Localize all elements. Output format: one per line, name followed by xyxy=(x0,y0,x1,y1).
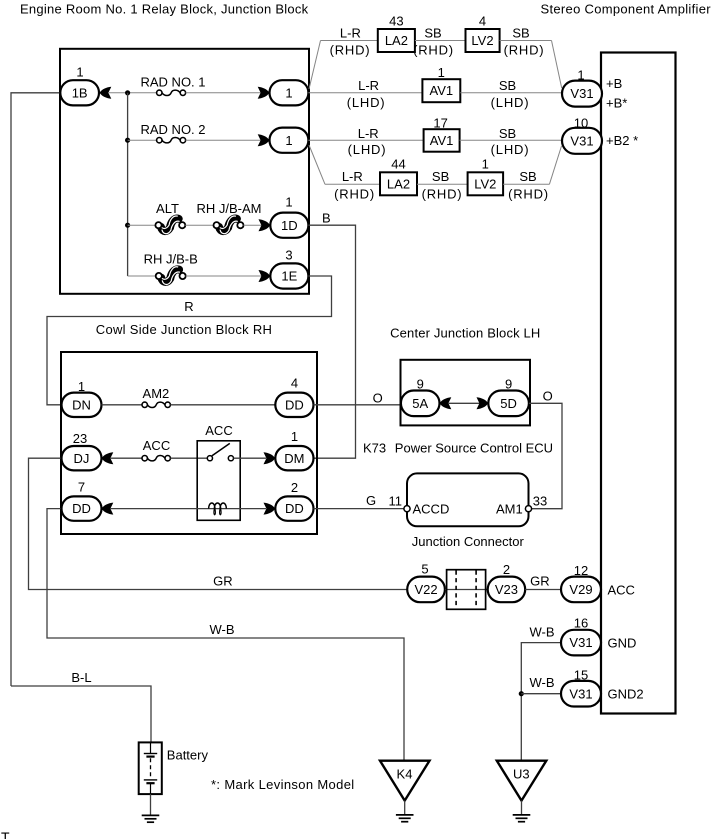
svg-text:GR: GR xyxy=(213,574,233,589)
svg-text:ALT: ALT xyxy=(156,201,179,216)
wire DD7 to relay coil xyxy=(110,508,266,510)
svg-text:1: 1 xyxy=(285,85,292,100)
wire B-L to battery xyxy=(11,686,151,742)
wire B net 1D to DM xyxy=(308,225,355,458)
svg-text:44: 44 xyxy=(391,157,405,172)
connector V31 (GND2) xyxy=(561,681,601,707)
junction node row3 xyxy=(125,223,130,228)
connector LV2 (1) xyxy=(468,172,504,195)
svg-text:L-R: L-R xyxy=(358,78,379,93)
svg-text:Power Source Control ECU: Power Source Control ECU xyxy=(395,441,553,456)
svg-text:5D: 5D xyxy=(500,396,517,411)
connector LA2 xyxy=(378,29,415,52)
svg-text:4: 4 xyxy=(291,375,298,390)
wire R net 1E to DN xyxy=(47,276,332,405)
wire DD2 to junction connector ACCD (G) xyxy=(314,508,404,510)
svg-text:Junction Connector: Junction Connector xyxy=(412,534,525,549)
pin AM1 xyxy=(525,506,531,512)
svg-text:1: 1 xyxy=(285,195,292,210)
connector 1B xyxy=(60,80,99,105)
fusible link RH J/B-B xyxy=(161,269,179,282)
wire 5D to AM1 (O) xyxy=(529,403,562,508)
connector DJ xyxy=(62,446,102,470)
svg-text:+B*: +B* xyxy=(606,95,627,110)
svg-text:LV2: LV2 xyxy=(471,33,493,48)
svg-text:K73: K73 xyxy=(363,441,386,456)
wire RHD path to LA2 xyxy=(321,40,378,42)
svg-text:K4: K4 xyxy=(397,767,413,782)
fuse RAD NO. 2 xyxy=(157,138,162,143)
Engine Room No.1 Relay Block box xyxy=(60,49,309,294)
svg-text:W-B: W-B xyxy=(529,675,554,690)
svg-text:1: 1 xyxy=(291,429,298,444)
connector V23 xyxy=(488,577,526,603)
fuse AM2 xyxy=(142,402,147,407)
svg-text:1D: 1D xyxy=(281,218,298,233)
Cowl Side Junction Block box xyxy=(61,352,317,534)
arrow into DD2 xyxy=(264,503,276,515)
wire 1B to left margin xyxy=(11,93,60,686)
wire link to connector 1D xyxy=(244,224,263,226)
connector LV2 xyxy=(466,29,500,52)
svg-text:SB: SB xyxy=(499,78,516,93)
wire AV1 to V31 pin 1 xyxy=(460,92,561,94)
svg-text:AV1: AV1 xyxy=(429,83,453,98)
wire connector1 row2 to AV1 17 xyxy=(308,139,423,141)
arrow at 5A xyxy=(440,397,452,409)
svg-text:DM: DM xyxy=(284,451,304,466)
svg-text:SB: SB xyxy=(499,126,516,141)
svg-text:SB: SB xyxy=(519,169,536,184)
svg-text:(LHD): (LHD) xyxy=(348,142,387,157)
svg-text:2: 2 xyxy=(291,480,298,495)
wire relay switch to DM xyxy=(234,457,267,459)
svg-text:SB: SB xyxy=(432,169,449,184)
wire link to connector 1E xyxy=(186,275,262,277)
connector AV1 (row2) xyxy=(424,129,460,152)
wire DD4 to 5A (O) xyxy=(314,404,401,406)
wire diagonal into V31 pin10 xyxy=(549,146,561,184)
wire diagonal into V31 pin1 xyxy=(552,41,562,89)
svg-text:(RHD): (RHD) xyxy=(413,43,454,58)
svg-text:V31: V31 xyxy=(570,86,593,101)
connector 1E xyxy=(270,263,308,288)
svg-text:4: 4 xyxy=(479,14,486,29)
svg-text:5A: 5A xyxy=(412,396,428,411)
svg-text:(RHD): (RHD) xyxy=(504,43,545,58)
connector V31 (+B) xyxy=(562,81,602,107)
svg-text:33: 33 xyxy=(533,493,547,508)
junction node row1 xyxy=(125,90,130,95)
wire GND2 branch xyxy=(521,693,561,695)
fuse RAD NO. 1 xyxy=(157,90,162,95)
svg-text:RAD NO. 1: RAD NO. 1 xyxy=(141,75,206,90)
svg-text:L-R: L-R xyxy=(358,126,379,141)
connector 1 (row1) xyxy=(270,80,309,105)
relay coil xyxy=(209,503,227,515)
svg-text:GND2: GND2 xyxy=(608,687,644,702)
fusible link ALT xyxy=(161,219,179,232)
connector DN xyxy=(62,393,102,417)
wire fuse to connector 1 row2 xyxy=(186,139,261,141)
svg-text:V29: V29 xyxy=(569,582,592,597)
svg-text:1: 1 xyxy=(76,65,83,80)
svg-text:LA2: LA2 xyxy=(387,176,410,191)
connector 5A xyxy=(401,391,440,417)
svg-text:RAD NO. 2: RAD NO. 2 xyxy=(141,122,206,137)
wire V22 to shield joint xyxy=(445,589,488,591)
svg-text:43: 43 xyxy=(389,14,403,29)
connector DD (7) xyxy=(62,496,102,520)
ground below K4 xyxy=(396,814,414,816)
wire LA2 to LV2 xyxy=(415,40,466,42)
svg-text:RH J/B-B: RH J/B-B xyxy=(144,252,198,267)
svg-text:V23: V23 xyxy=(495,582,518,597)
wire LV2 to amplifier diag xyxy=(500,40,552,42)
vertical bus in relay block xyxy=(127,93,129,276)
connector DD (4) xyxy=(275,393,313,417)
wire fuse to connector 1 row1 xyxy=(186,92,261,94)
svg-text:B: B xyxy=(322,211,331,226)
svg-text:16: 16 xyxy=(574,616,588,631)
arrow into 5D xyxy=(477,397,489,409)
svg-text:1: 1 xyxy=(482,157,489,172)
ground below U3 xyxy=(513,814,531,816)
wire diagonal row2 down to RHD path xyxy=(309,145,325,184)
svg-text:(RHD): (RHD) xyxy=(508,186,549,201)
svg-text:ACC: ACC xyxy=(608,583,635,598)
svg-text:AM2: AM2 xyxy=(143,386,170,401)
junction node GND2 xyxy=(519,691,524,696)
fuse ACC xyxy=(142,456,147,461)
wire ALT to RH J/B-AM link xyxy=(185,224,213,226)
wire GND net xyxy=(521,643,561,761)
wire diagonal row1 up to RHD path xyxy=(309,41,321,90)
svg-text:RH J/B-AM: RH J/B-AM xyxy=(197,201,262,216)
svg-text:B-L: B-L xyxy=(71,670,91,685)
svg-text:GND: GND xyxy=(608,636,637,651)
fusible link RH J/B-AM xyxy=(219,219,237,232)
svg-text:2: 2 xyxy=(503,562,510,577)
wire 5A to 5D xyxy=(448,402,481,404)
svg-text:DD: DD xyxy=(285,397,304,412)
svg-text:ACC: ACC xyxy=(143,438,170,453)
arrow into connector 1E xyxy=(259,270,271,282)
relay ACC box xyxy=(197,441,240,521)
connector AV1 (row1) xyxy=(422,79,460,102)
connector 1 (row2) xyxy=(270,128,309,153)
junction connector box xyxy=(407,473,529,526)
svg-text:23: 23 xyxy=(73,431,87,446)
svg-text:U3: U3 xyxy=(513,767,530,782)
connector V31 (+B2) xyxy=(562,128,602,154)
svg-text:7: 7 xyxy=(78,480,85,495)
svg-text:11: 11 xyxy=(389,494,403,509)
ground point K4 xyxy=(380,761,430,801)
svg-text:G: G xyxy=(366,493,376,508)
wire bus to RH J/B-B link xyxy=(128,275,156,277)
svg-text:(LHD): (LHD) xyxy=(491,142,530,157)
Center Junction Block box xyxy=(401,360,531,426)
svg-text:DJ: DJ xyxy=(74,451,90,466)
arrow into connector 1D xyxy=(259,219,271,231)
connector 1D xyxy=(270,213,308,238)
svg-text:L-R: L-R xyxy=(342,169,363,184)
svg-text:LA2: LA2 xyxy=(385,33,408,48)
svg-text:DD: DD xyxy=(285,501,304,516)
svg-text:W-B: W-B xyxy=(209,622,234,637)
arrow into connector 1 row2 xyxy=(258,134,270,146)
svg-text:W-B: W-B xyxy=(529,624,554,639)
svg-text:ACC: ACC xyxy=(205,423,232,438)
wire DJ to GR rail xyxy=(29,458,408,589)
wire LV2 to diag V31 10 xyxy=(503,183,549,185)
wire K4 to ground xyxy=(404,801,406,815)
wire bus to fuse RAD NO.2 xyxy=(128,139,157,141)
svg-text:1E: 1E xyxy=(281,269,297,284)
arrow into connector 1 row1 xyxy=(258,87,270,99)
svg-text:ACCD: ACCD xyxy=(413,502,450,517)
svg-text:V31: V31 xyxy=(569,635,592,650)
pin ACCD xyxy=(404,506,410,512)
wire AV1 17 to V31 pin 10 xyxy=(460,139,562,141)
arrow at DD7 xyxy=(102,503,114,515)
connector LA2 (44) xyxy=(380,172,417,195)
svg-text:(RHD): (RHD) xyxy=(330,43,371,58)
svg-text:LV2: LV2 xyxy=(474,176,496,191)
svg-text:1: 1 xyxy=(438,65,445,80)
svg-text:AV1: AV1 xyxy=(430,133,454,148)
svg-text:O: O xyxy=(543,389,553,404)
connector DM xyxy=(275,446,313,470)
svg-text:Center Junction Block LH: Center Junction Block LH xyxy=(390,326,540,341)
wire battery to ground xyxy=(150,794,152,815)
svg-text:T: T xyxy=(1,829,10,839)
wire DJ to ACC fuse xyxy=(110,457,142,459)
svg-text:(RHD): (RHD) xyxy=(422,186,463,201)
svg-text:Battery: Battery xyxy=(167,748,209,763)
arrow at 1B xyxy=(100,87,112,99)
connector V29 xyxy=(561,577,601,603)
connector V22 xyxy=(407,577,445,603)
wire 1B row to fuse RAD NO.1 xyxy=(108,92,157,94)
battery xyxy=(139,742,162,794)
wire bus to ALT link xyxy=(128,224,156,226)
stereo component amplifier box xyxy=(601,53,676,714)
svg-text:*: Mark Levinson Model: *: Mark Levinson Model xyxy=(211,777,355,792)
svg-text:O: O xyxy=(373,391,383,406)
svg-text:SB: SB xyxy=(512,25,529,40)
relay switch xyxy=(207,456,212,461)
wire AM2 to DD4 xyxy=(170,404,275,406)
svg-text:(LHD): (LHD) xyxy=(491,95,530,110)
arrow into DM xyxy=(264,452,276,464)
connector 5D xyxy=(488,391,529,417)
svg-text:DD: DD xyxy=(72,501,91,516)
svg-text:V31: V31 xyxy=(570,133,593,148)
wire DN to AM2 fuse xyxy=(102,404,143,406)
arrow at DJ xyxy=(102,452,114,464)
svg-text:3: 3 xyxy=(285,248,292,263)
svg-text:1: 1 xyxy=(285,133,292,148)
ground below battery xyxy=(142,814,160,816)
svg-text:R: R xyxy=(184,299,193,314)
svg-text:GR: GR xyxy=(530,574,550,589)
wire V23 to V29 xyxy=(525,589,561,591)
svg-text:V31: V31 xyxy=(569,686,592,701)
connector V31 (GND) xyxy=(561,630,601,656)
svg-text:Stereo Component Amplifier: Stereo Component Amplifier xyxy=(541,2,712,17)
svg-text:SB: SB xyxy=(424,25,441,40)
svg-text:DN: DN xyxy=(72,397,91,412)
shielded joint box xyxy=(447,570,486,610)
connector DD (2) xyxy=(275,496,313,520)
svg-text:Cowl Side Junction Block RH: Cowl Side Junction Block RH xyxy=(96,322,272,337)
svg-text:(LHD): (LHD) xyxy=(347,95,386,110)
wire LA2 44 to LV2 1 xyxy=(417,183,468,185)
svg-text:1B: 1B xyxy=(72,85,88,100)
svg-text:L-R: L-R xyxy=(340,25,361,40)
svg-text:+B2 *: +B2 * xyxy=(606,133,638,148)
wire DD7 to W-B rail xyxy=(47,509,404,761)
svg-text:Engine Room No. 1 Relay Block,: Engine Room No. 1 Relay Block, Junction … xyxy=(20,2,309,17)
wire U3 to ground xyxy=(521,801,523,815)
wire connector1 to AV1 (LHD row1) xyxy=(308,92,422,94)
svg-text:V22: V22 xyxy=(414,582,437,597)
svg-text:5: 5 xyxy=(421,562,428,577)
wire ACC fuse to relay switch xyxy=(170,457,207,459)
svg-text:AM1: AM1 xyxy=(496,502,523,517)
svg-text:+B: +B xyxy=(606,76,622,91)
ground point U3 xyxy=(497,761,547,801)
wire RHD lower path to LA2 44 xyxy=(325,183,380,185)
junction node row2 xyxy=(125,138,130,143)
svg-text:(RHD): (RHD) xyxy=(334,186,375,201)
